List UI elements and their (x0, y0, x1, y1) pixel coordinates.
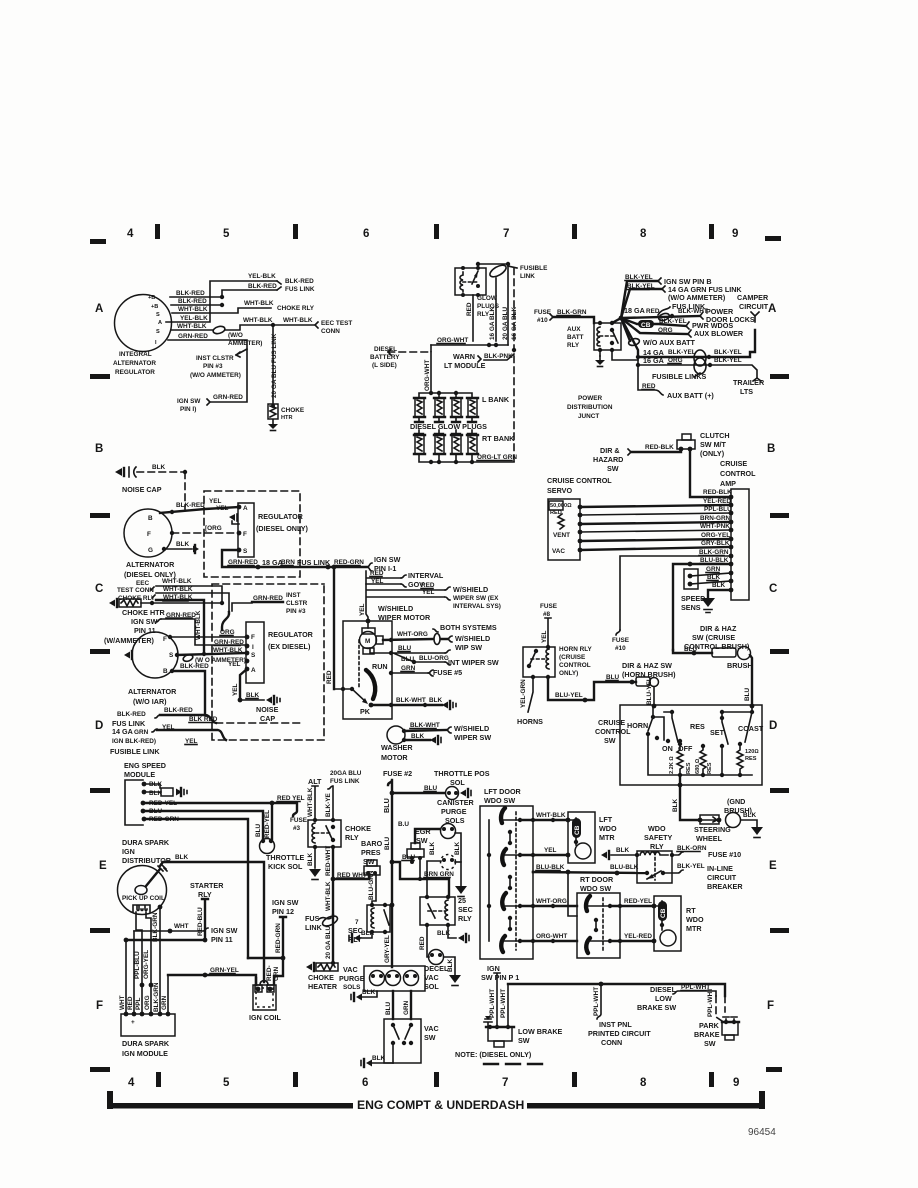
svg-text:FUS LINK: FUS LINK (285, 286, 315, 293)
svg-text:BLK: BLK (362, 989, 376, 996)
svg-text:FUSIBLE LINK: FUSIBLE LINK (110, 747, 160, 756)
svg-text:W/SHIELD: W/SHIELD (454, 724, 489, 733)
svg-text:WHT: WHT (119, 995, 126, 1010)
svg-text:BLK: BLK (411, 733, 425, 740)
svg-text:PPL-WHT: PPL-WHT (593, 987, 600, 1016)
svg-text:M: M (365, 638, 370, 645)
wire servo-amp GRY-BLK (580, 547, 731, 550)
wire +B2 BLK-RED (171, 304, 222, 306)
svg-text:S: S (243, 548, 248, 555)
wires to interval gov (366, 571, 401, 584)
svg-text:CHOKE HTR: CHOKE HTR (122, 608, 166, 617)
top tick 7/8 (572, 224, 577, 239)
left dash E/F (90, 928, 110, 933)
wire GRN-RED ign sw pin 11 (161, 619, 247, 645)
svg-text:PRES: PRES (361, 848, 381, 857)
svg-text:WHT-BLK: WHT-BLK (244, 300, 274, 307)
svg-text:S: S (169, 652, 174, 659)
svg-text:YEL: YEL (216, 505, 229, 512)
wire 20GA BLU down to choke heater (332, 915, 334, 963)
svg-text:GRN: GRN (161, 995, 168, 1010)
rail wire (508, 984, 725, 996)
svg-text:BLU-BLK: BLU-BLK (610, 864, 639, 871)
svg-text:TRAILER: TRAILER (733, 378, 765, 387)
svg-text:20 GA BLU: 20 GA BLU (502, 306, 509, 340)
svg-text:BLK-RED: BLK-RED (117, 711, 146, 718)
svg-text:SAFETY: SAFETY (644, 833, 673, 842)
svg-text:LFT: LFT (599, 815, 613, 824)
canister circle 1 (441, 824, 456, 839)
wire CB PWR WDOS (621, 318, 686, 326)
svg-text:2.2K Ω: 2.2K Ω (669, 756, 675, 774)
wire WHT-ORG lft-rt (520, 905, 577, 907)
svg-text:D: D (95, 720, 103, 732)
wire servo-amp ORG-YEL (580, 539, 731, 541)
svg-text:BLK-GRN: BLK-GRN (152, 912, 159, 942)
brace w/s wip sw (447, 636, 452, 642)
svg-text:BARO: BARO (361, 839, 383, 848)
svg-text:(L SIDE): (L SIDE) (372, 362, 397, 369)
lft motor circle (575, 843, 591, 859)
svg-text:PPL-BLU: PPL-BLU (134, 951, 141, 979)
wire WHT-BLK 2 (156, 593, 229, 612)
svg-text:MTR: MTR (599, 833, 615, 842)
rt inner dots/wires (587, 906, 610, 941)
svg-text:A: A (158, 320, 162, 326)
glow plugs rly box (455, 268, 486, 295)
cruise control sw box (620, 705, 762, 785)
wire RED-WHT horizontal to baro (333, 875, 369, 879)
svg-text:DISTRIBUTION: DISTRIBUTION (567, 404, 613, 411)
svg-text:BLK: BLK (307, 852, 314, 866)
svg-text:PK: PK (360, 707, 371, 716)
svg-text:PIN 12: PIN 12 (272, 907, 294, 916)
25 coil right (445, 900, 448, 920)
svg-text:RED-GRN: RED-GRN (275, 923, 282, 953)
pin A (237, 505, 242, 510)
svg-text:F: F (251, 634, 255, 641)
flipper lft 3 (502, 893, 506, 909)
alternator circle (integral alternator regulator) (115, 295, 172, 352)
svg-text:PURGE: PURGE (441, 807, 467, 816)
svg-text:BLK-YEL: BLK-YEL (677, 863, 705, 870)
lft door wdo sw box (480, 806, 533, 959)
EGR sw symbol (411, 843, 420, 849)
svg-text:9: 9 (732, 228, 738, 240)
wire RED-BLK to clutch sw (631, 449, 681, 452)
svg-text:BLU: BLU (385, 1001, 392, 1015)
svg-text:F: F (243, 531, 247, 538)
aux batt rly box (594, 323, 621, 350)
svg-text:BRN-GRN: BRN-GRN (700, 515, 731, 522)
RT bank tops (415, 433, 476, 435)
svg-text:MTR: MTR (686, 924, 702, 933)
svg-text:IGN SW: IGN SW (374, 555, 401, 564)
svg-text:PIN #3: PIN #3 (203, 363, 223, 370)
junction fuse2/throttle pos (390, 791, 395, 796)
wire BLK-YEL in-line cb (663, 870, 683, 873)
svg-text:FUSE #5: FUSE #5 (433, 668, 462, 677)
svg-text:16 GA: 16 GA (643, 356, 664, 365)
svg-text:AUX BLOWER: AUX BLOWER (694, 329, 744, 338)
CB pill (638, 320, 654, 328)
horn rly switch (529, 651, 536, 666)
bottom tick 6/7 (434, 1072, 439, 1087)
wire canister bottom left (427, 861, 441, 897)
svg-text:DURA SPARK: DURA SPARK (122, 838, 170, 847)
wire 14GA BLK-YEL camper (621, 318, 755, 357)
wire WHT-BLK 3 (bold) (156, 600, 204, 653)
vac purge sols box (364, 966, 425, 991)
svg-text:BRAKE: BRAKE (694, 1030, 720, 1039)
svg-text:PIN #3: PIN #3 (286, 608, 306, 615)
wire RED from relay down (472, 295, 474, 341)
left dash B/C (90, 513, 110, 518)
svg-text:RED-: RED- (266, 965, 273, 981)
wire servo-amp YEL-RED (580, 505, 731, 507)
svg-text:ORG-YEL: ORG-YEL (701, 532, 730, 539)
svg-text:W/O AUX BATT: W/O AUX BATT (643, 338, 696, 347)
fusible link oval on camper wire (694, 350, 706, 366)
svg-text:CONN: CONN (321, 328, 340, 335)
svg-text:RED: RED (466, 302, 473, 316)
fus link oval (321, 914, 339, 928)
svg-text:SW (CRUISE: SW (CRUISE (692, 633, 735, 642)
wire clutch to amp RED-BLK (690, 449, 731, 497)
svg-text:NOISE: NOISE (256, 705, 279, 714)
brace w/shield wiper sw (446, 727, 451, 733)
wiper motor box (343, 621, 392, 719)
flipper lft 1 (501, 808, 505, 823)
wire RED-YEL down to kick sol (271, 803, 273, 839)
vac sw internals (391, 1023, 395, 1027)
wire RED-GRN long down to coil (144, 819, 248, 958)
wire YEL lft (520, 854, 568, 856)
wire G BLK (164, 548, 192, 550)
svg-text:B: B (163, 668, 168, 675)
svg-text:7: 7 (503, 228, 509, 240)
svg-text:SW: SW (424, 1033, 436, 1042)
wires to w/shield wiper sw (ex interval sys) (366, 584, 445, 621)
svg-text:SW: SW (518, 1036, 530, 1045)
brush circle (726, 813, 741, 828)
svg-text:SOL: SOL (450, 778, 465, 787)
wire ALT WHT-BLK down (312, 786, 318, 820)
svg-text:E: E (769, 860, 777, 872)
svg-text:B.U: B.U (398, 821, 409, 828)
lft inner dashed (515, 812, 517, 950)
wire BLK ground 25rly (448, 925, 456, 938)
connector oval w/o aux batt (628, 337, 640, 346)
svg-text:CAP: CAP (260, 714, 275, 723)
glow plug R2 (434, 435, 445, 454)
svg-text:(W/O AMMETER): (W/O AMMETER) (190, 372, 241, 379)
cruise servo box (548, 499, 580, 560)
ground arrow + BLK left (601, 852, 607, 859)
alternator (w/o IAR) circle (132, 632, 178, 678)
ground speed sens (701, 598, 715, 607)
svg-text:WHT-BLK: WHT-BLK (195, 610, 202, 640)
wire RED-YEL (610, 905, 654, 907)
svg-text:RUN: RUN (372, 662, 388, 671)
svg-text:DIR &: DIR & (600, 446, 620, 455)
svg-text:C: C (95, 583, 103, 595)
fus link squiggle (658, 307, 670, 315)
svg-text:BLK-RED: BLK-RED (176, 290, 205, 297)
wire YEL-RED (610, 940, 654, 942)
wire BLK (690, 581, 731, 584)
svg-text:D: D (769, 720, 777, 732)
svg-text:GRN: GRN (403, 1000, 410, 1015)
svg-text:HTR: HTR (281, 415, 293, 421)
svg-text:(ONLY): (ONLY) (700, 449, 725, 458)
svg-text:#3: #3 (293, 825, 301, 832)
top tick 8/9 (709, 224, 714, 239)
left dash C/D (90, 649, 110, 654)
pin F (237, 531, 242, 536)
regulator (diesel only) box (238, 503, 254, 557)
svg-text:E: E (99, 860, 107, 872)
svg-text:INST PNL: INST PNL (599, 1020, 632, 1029)
svg-text:IGN SW: IGN SW (211, 926, 238, 935)
svg-text:680 Ω: 680 Ω (695, 758, 701, 774)
power distribution fan node (619, 316, 624, 321)
svg-text:(W/O: (W/O (228, 332, 243, 339)
svg-text:(W/O AMMETER): (W/O AMMETER) (668, 293, 726, 302)
svg-text:ALTERNATOR: ALTERNATOR (113, 360, 156, 367)
svg-text:CONTROL: CONTROL (595, 727, 631, 736)
servo resistor label 50,000ohm RED (549, 501, 563, 510)
top right corner dash (765, 236, 781, 241)
svg-text:DIESEL GLOW PLUGS: DIESEL GLOW PLUGS (410, 422, 487, 431)
svg-text:WDO: WDO (686, 915, 704, 924)
svg-text:CB: CB (641, 322, 651, 329)
svg-text:SW M/T: SW M/T (700, 440, 727, 449)
relay switch arm (472, 271, 478, 284)
svg-text:DIESEL: DIESEL (374, 346, 397, 353)
wire sec rly ground (360, 932, 372, 938)
wire red-grn joins (248, 958, 283, 984)
svg-text:BLK: BLK (437, 930, 451, 937)
svg-text:G: G (148, 547, 153, 554)
ground arrow throttle pos (460, 790, 466, 797)
svg-text:WHT-ORG: WHT-ORG (536, 898, 567, 905)
svg-text:BLK: BLK (429, 697, 443, 704)
svg-text:5: 5 (223, 1077, 230, 1089)
svg-text:RED: RED (127, 996, 134, 1010)
svg-text:BLK-RED: BLK-RED (248, 283, 277, 290)
svg-text:INTERVAL SYS): INTERVAL SYS) (453, 603, 501, 610)
flipper lft 4 (501, 936, 505, 952)
lft wdo mtr box (568, 812, 595, 863)
svg-text:YEL: YEL (359, 603, 366, 616)
svg-text:BRAKE SW: BRAKE SW (637, 1003, 676, 1012)
svg-text:S: S (251, 652, 256, 659)
svg-text:LTS: LTS (740, 387, 753, 396)
cruise brush connector (712, 648, 736, 657)
canister circle 2 (dashed) (441, 855, 456, 870)
brace (156, 619, 161, 622)
fusible link loop (488, 263, 508, 279)
relay pins (461, 266, 465, 270)
wire 14GA GRN FUS LINK (621, 289, 662, 318)
wire BLU to kick sol (143, 811, 263, 839)
svg-text:RT: RT (686, 906, 696, 915)
svg-text:RED-BLK: RED-BLK (645, 444, 674, 451)
wire S2 WHT-BLK to EEC test conn (171, 325, 315, 330)
wdo safety rly box (637, 851, 672, 883)
svg-text:YEL-RED: YEL-RED (703, 498, 731, 505)
L bank grounds (419, 417, 472, 421)
svg-text:4: 4 (127, 228, 134, 240)
svg-text:INTERVAL: INTERVAL (408, 571, 444, 580)
svg-text:IGN SW: IGN SW (131, 617, 158, 626)
svg-text:IGN BLK-RED): IGN BLK-RED) (112, 738, 156, 745)
wire WHT ign sw pin 11 (134, 928, 208, 931)
title bar left segment (110, 1103, 353, 1109)
svg-text:SOLS: SOLS (343, 984, 361, 991)
svg-text:18 GA: 18 GA (262, 558, 283, 567)
low brake sw ground (484, 1019, 492, 1027)
rt inner dashed (602, 898, 604, 950)
top tick 5/6 (293, 224, 298, 239)
svg-text:RES: RES (690, 722, 705, 731)
svg-text:WHT-BLK: WHT-BLK (536, 812, 566, 819)
svg-text:CONN: CONN (601, 1038, 622, 1047)
svg-text:GRN-RED: GRN-RED (213, 394, 243, 401)
svg-text:DECEL: DECEL (424, 964, 449, 973)
wire BLU-YEL to dir&haz (548, 677, 636, 700)
choke rly box (308, 820, 341, 847)
wire BLU-BLK long from lft box (532, 871, 534, 873)
connector oval on S (182, 653, 193, 662)
wire purge1 ground (362, 991, 377, 997)
svg-text:SEC: SEC (458, 905, 473, 914)
svg-text:120Ω: 120Ω (745, 749, 759, 755)
sec rly switch (384, 910, 389, 925)
sec rly coil (371, 908, 374, 928)
ground below choke htr (268, 420, 278, 431)
wire BLU down to cruise sw (750, 655, 752, 706)
svg-text:NOISE CAP: NOISE CAP (122, 485, 162, 494)
throttle kick sol circle (260, 839, 275, 854)
ground arrow washer (430, 737, 436, 744)
svg-text:INT WIPER SW: INT WIPER SW (448, 658, 499, 667)
svg-text:YEL: YEL (422, 589, 435, 596)
pin RED-YEL (141, 801, 146, 806)
wire 18GA RED BLK-WHT power door locks (621, 316, 700, 318)
bottom rail (648, 736, 752, 775)
svg-text:50,000Ω: 50,000Ω (550, 503, 572, 509)
rotor hatches (158, 864, 167, 871)
set switch (722, 712, 728, 744)
bottom tick 5/6 (293, 1072, 298, 1087)
RT bank bottom rail (419, 454, 514, 462)
svg-text:CHOKE RLY: CHOKE RLY (277, 305, 315, 312)
svg-text:WIPER SW: WIPER SW (454, 733, 491, 742)
25 dashed (428, 910, 445, 912)
wire RED down to decel (427, 925, 429, 957)
svg-text:VAC: VAC (424, 973, 439, 982)
svg-text:RES: RES (707, 762, 713, 774)
svg-text:CAMPER: CAMPER (737, 293, 769, 302)
top inner rail (664, 711, 752, 713)
svg-text:+B: +B (151, 304, 158, 310)
svg-text:B: B (148, 515, 153, 522)
svg-text:VENT: VENT (553, 532, 570, 539)
svg-text:BRUSH: BRUSH (727, 661, 753, 670)
svg-text:ONLY): ONLY) (559, 670, 578, 677)
svg-text:FUS: FUS (305, 914, 320, 923)
svg-text:7: 7 (355, 919, 359, 926)
svg-text:FUSE: FUSE (534, 309, 552, 316)
svg-text:CRUISE: CRUISE (598, 718, 625, 727)
svg-text:AMMETER): AMMETER) (228, 340, 262, 347)
svg-text:S: S (156, 312, 160, 318)
svg-text:GRY-BLK: GRY-BLK (701, 540, 730, 547)
svg-text:YEL: YEL (232, 683, 239, 696)
set bottom (721, 746, 723, 775)
aux batt rly dashed (600, 335, 614, 337)
svg-text:GLOW: GLOW (477, 295, 498, 302)
wire GRN-YEL (168, 975, 256, 985)
wire BLK-WHT washer (404, 730, 446, 731)
svg-text:5: 5 (223, 228, 230, 240)
svg-text:BREAKER: BREAKER (707, 882, 743, 891)
wire ORG-WHT lft-rt (520, 940, 577, 942)
svg-text:YEL: YEL (209, 498, 222, 505)
rt door wdo sw box (577, 893, 620, 958)
wire S rail (177, 653, 247, 655)
svg-text:18 GA: 18 GA (624, 306, 645, 315)
junction 18GA (256, 565, 261, 570)
svg-text:WHT-BLK: WHT-BLK (178, 306, 208, 313)
low brake sw body (486, 1026, 514, 1028)
wire grn-yel into coil (255, 978, 257, 985)
purge circle 3 (404, 971, 419, 986)
switch bottom (647, 871, 661, 879)
svg-text:BLK: BLK (712, 582, 726, 589)
wire W/O AUX BATT stub (621, 318, 630, 341)
svg-text:STARTER: STARTER (190, 881, 224, 890)
noise arrow on A wire (229, 514, 235, 521)
svg-text:WHT-BLK: WHT-BLK (307, 787, 314, 817)
distributor circle (118, 866, 167, 915)
speed sens box (684, 569, 698, 589)
decel vac sol circle (429, 950, 444, 965)
wire RED vertical from ign sw pin I-1 (333, 567, 335, 689)
svg-text:IGN SW: IGN SW (272, 898, 299, 907)
svg-text:LT MODULE: LT MODULE (444, 361, 486, 370)
throttle pos sol circle (446, 787, 459, 800)
wire inst pnl down (597, 984, 601, 1019)
svg-text:REGULATOR: REGULATOR (258, 512, 304, 521)
svg-text:6: 6 (362, 1077, 368, 1089)
wire GRN fuse 5 (391, 672, 428, 674)
left dash F/bottom (90, 1067, 110, 1072)
svg-text:TEST CONN: TEST CONN (117, 587, 154, 594)
svg-text:BLK-YEL: BLK-YEL (714, 349, 742, 356)
brace interval gov (401, 575, 406, 587)
wire YEL-GRN to horns (528, 677, 533, 712)
ground steering (751, 827, 763, 835)
svg-text:F: F (163, 636, 167, 643)
svg-text:8: 8 (640, 228, 647, 240)
wire BLK-YE down (328, 786, 333, 820)
ground choke rly (309, 869, 321, 877)
svg-text:BLK-RED: BLK-RED (285, 278, 314, 285)
svg-text:MOTOR: MOTOR (381, 753, 408, 762)
